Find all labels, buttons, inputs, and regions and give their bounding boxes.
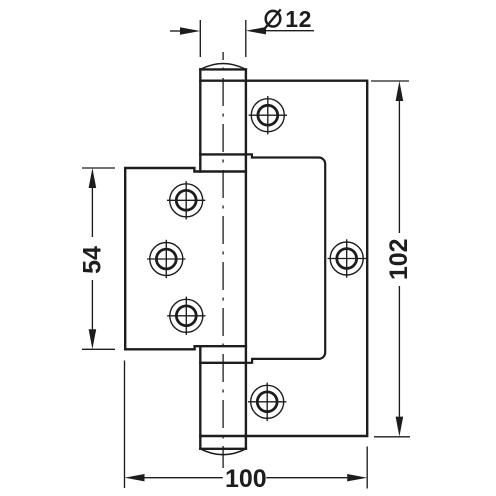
extension line left	[199, 20, 201, 57]
label Ø12 : diameter symbol drawn manually	[266, 11, 281, 27]
extension line right	[245, 20, 247, 57]
bottom cap top line	[200, 435, 246, 437]
barrel right edge (continuous)	[245, 69, 247, 448]
svg-text:102: 102	[385, 238, 413, 280]
dimension line segments	[145, 477, 223, 479]
right leaf outer outline	[246, 81, 367, 436]
arrowhead left	[125, 474, 145, 481]
cap bottom line	[200, 79, 246, 81]
arrowhead up	[89, 168, 97, 188]
lower joint line	[200, 362, 246, 364]
arrowhead pointing left at right ext line	[246, 27, 266, 34]
arrowhead down	[89, 329, 97, 349]
dimension line segments	[91, 188, 93, 237]
arrowhead up	[396, 81, 404, 101]
svg-text:54: 54	[78, 246, 106, 274]
extension line top	[371, 80, 409, 82]
barrel left edge lower	[199, 346, 201, 449]
leader line right	[264, 30, 314, 32]
screw hole right-bottom	[248, 383, 286, 421]
top cap line (dome base)	[200, 68, 246, 70]
screw hole right-middle	[328, 239, 366, 277]
arrowhead pointing right at left ext line	[180, 27, 200, 34]
extension line left	[124, 361, 126, 489]
arrowhead down	[396, 417, 404, 437]
dimension Ø12 (pin diameter)	[170, 20, 314, 57]
dimension 100 (overall width)	[125, 361, 368, 489]
barrel centerline	[222, 52, 224, 468]
barrel left edge upper	[199, 69, 201, 171]
extension line top	[82, 167, 115, 169]
screw hole left-middle	[147, 240, 185, 278]
arrowhead right	[347, 474, 367, 481]
svg-text:12: 12	[285, 6, 312, 32]
bottom cap base line	[200, 448, 246, 450]
extension line bottom	[82, 348, 115, 350]
extension line right	[366, 447, 368, 489]
screw hole left-top	[167, 181, 205, 219]
screw hole left-bottom	[167, 297, 205, 335]
left leaf outline	[125, 168, 246, 349]
screw hole right-top	[249, 96, 287, 134]
pin dome bottom	[200, 449, 246, 455]
barrel / knuckle body	[200, 69, 246, 448]
upper joint line	[200, 153, 246, 155]
dimension line segments	[398, 101, 400, 233]
pin dome top	[200, 64, 246, 70]
dimension 54 (left leaf height)	[82, 168, 115, 349]
dimension 102 (right leaf height)	[371, 81, 410, 437]
extension line bottom	[374, 436, 410, 438]
svg-text:100: 100	[225, 465, 267, 493]
left arrow tail	[170, 30, 181, 32]
right leaf inner contour (recess)	[246, 154, 325, 362]
